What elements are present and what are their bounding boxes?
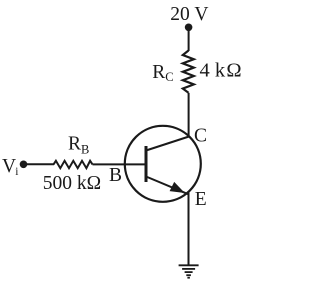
transistor Q1 body circle: [125, 126, 201, 202]
svg-text:500 kΩ: 500 kΩ: [43, 173, 101, 194]
svg-text:Vi: Vi: [2, 156, 18, 178]
wire RB to base bar: [93, 163, 147, 165]
emitter diagonal lead: [146, 177, 189, 195]
node dot at 20 V terminal: [185, 24, 193, 32]
emitter arrowhead: [170, 182, 185, 193]
svg-text:B: B: [109, 165, 122, 186]
collector diagonal lead: [146, 137, 189, 151]
wire from 20 V node down to RC: [188, 27, 190, 51]
wire emitter junction down to ground: [188, 193, 190, 266]
wire RC to collector junction: [188, 93, 190, 137]
node dot at Vi terminal: [20, 161, 28, 169]
svg-text:E: E: [195, 189, 207, 210]
svg-text:C: C: [194, 126, 207, 147]
wire Vi node to RB: [24, 163, 55, 165]
svg-text:4 kΩ: 4 kΩ: [200, 60, 242, 82]
svg-text:20 V: 20 V: [170, 4, 208, 25]
transistor base bar: [145, 146, 148, 182]
resistor RB zigzag: [54, 161, 93, 168]
ground symbol: [179, 265, 199, 277]
resistor RC zigzag: [183, 51, 194, 93]
